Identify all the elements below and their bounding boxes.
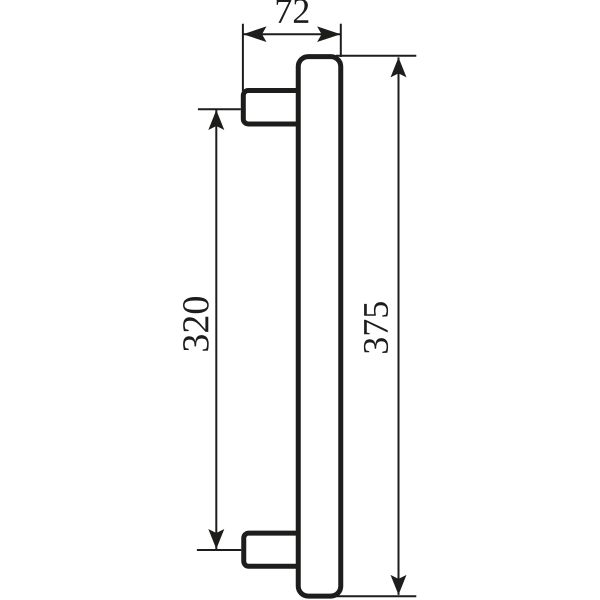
dimension line: 72 horizontal [243,33,341,35]
arrowhead: 375 top [391,57,407,77]
arrowhead: 72 right [317,26,341,42]
extension line: 375 dim, top (handle top edge) [336,55,416,57]
top mounting post [243,91,301,125]
bottom mounting post [244,533,302,566]
extension line: 320 dim, bottom (bottom post centerline) [197,549,241,551]
dimension label: 320 (rotated) [183,297,209,351]
extension line: 375 dim, bottom (handle bottom edge) [335,595,417,597]
extension line: 72 dim, right (handle right edge) [340,24,342,57]
arrowhead: 72 left [243,26,267,42]
arrowhead: 320 bottom [208,529,224,549]
dimension line: 320 vertical [215,110,217,549]
extension line: 72 dim, left (post left edge) [242,24,244,91]
arrowhead: 375 bottom [391,575,407,595]
extension line: 320 dim, top (top post centerline) [198,108,241,110]
dimension label: 72 [277,0,309,23]
dimension line: 375 vertical [398,57,400,595]
dimension label: 375 (rotated) [364,302,388,353]
arrowhead: 320 top [208,110,224,130]
handle bar [298,57,341,597]
